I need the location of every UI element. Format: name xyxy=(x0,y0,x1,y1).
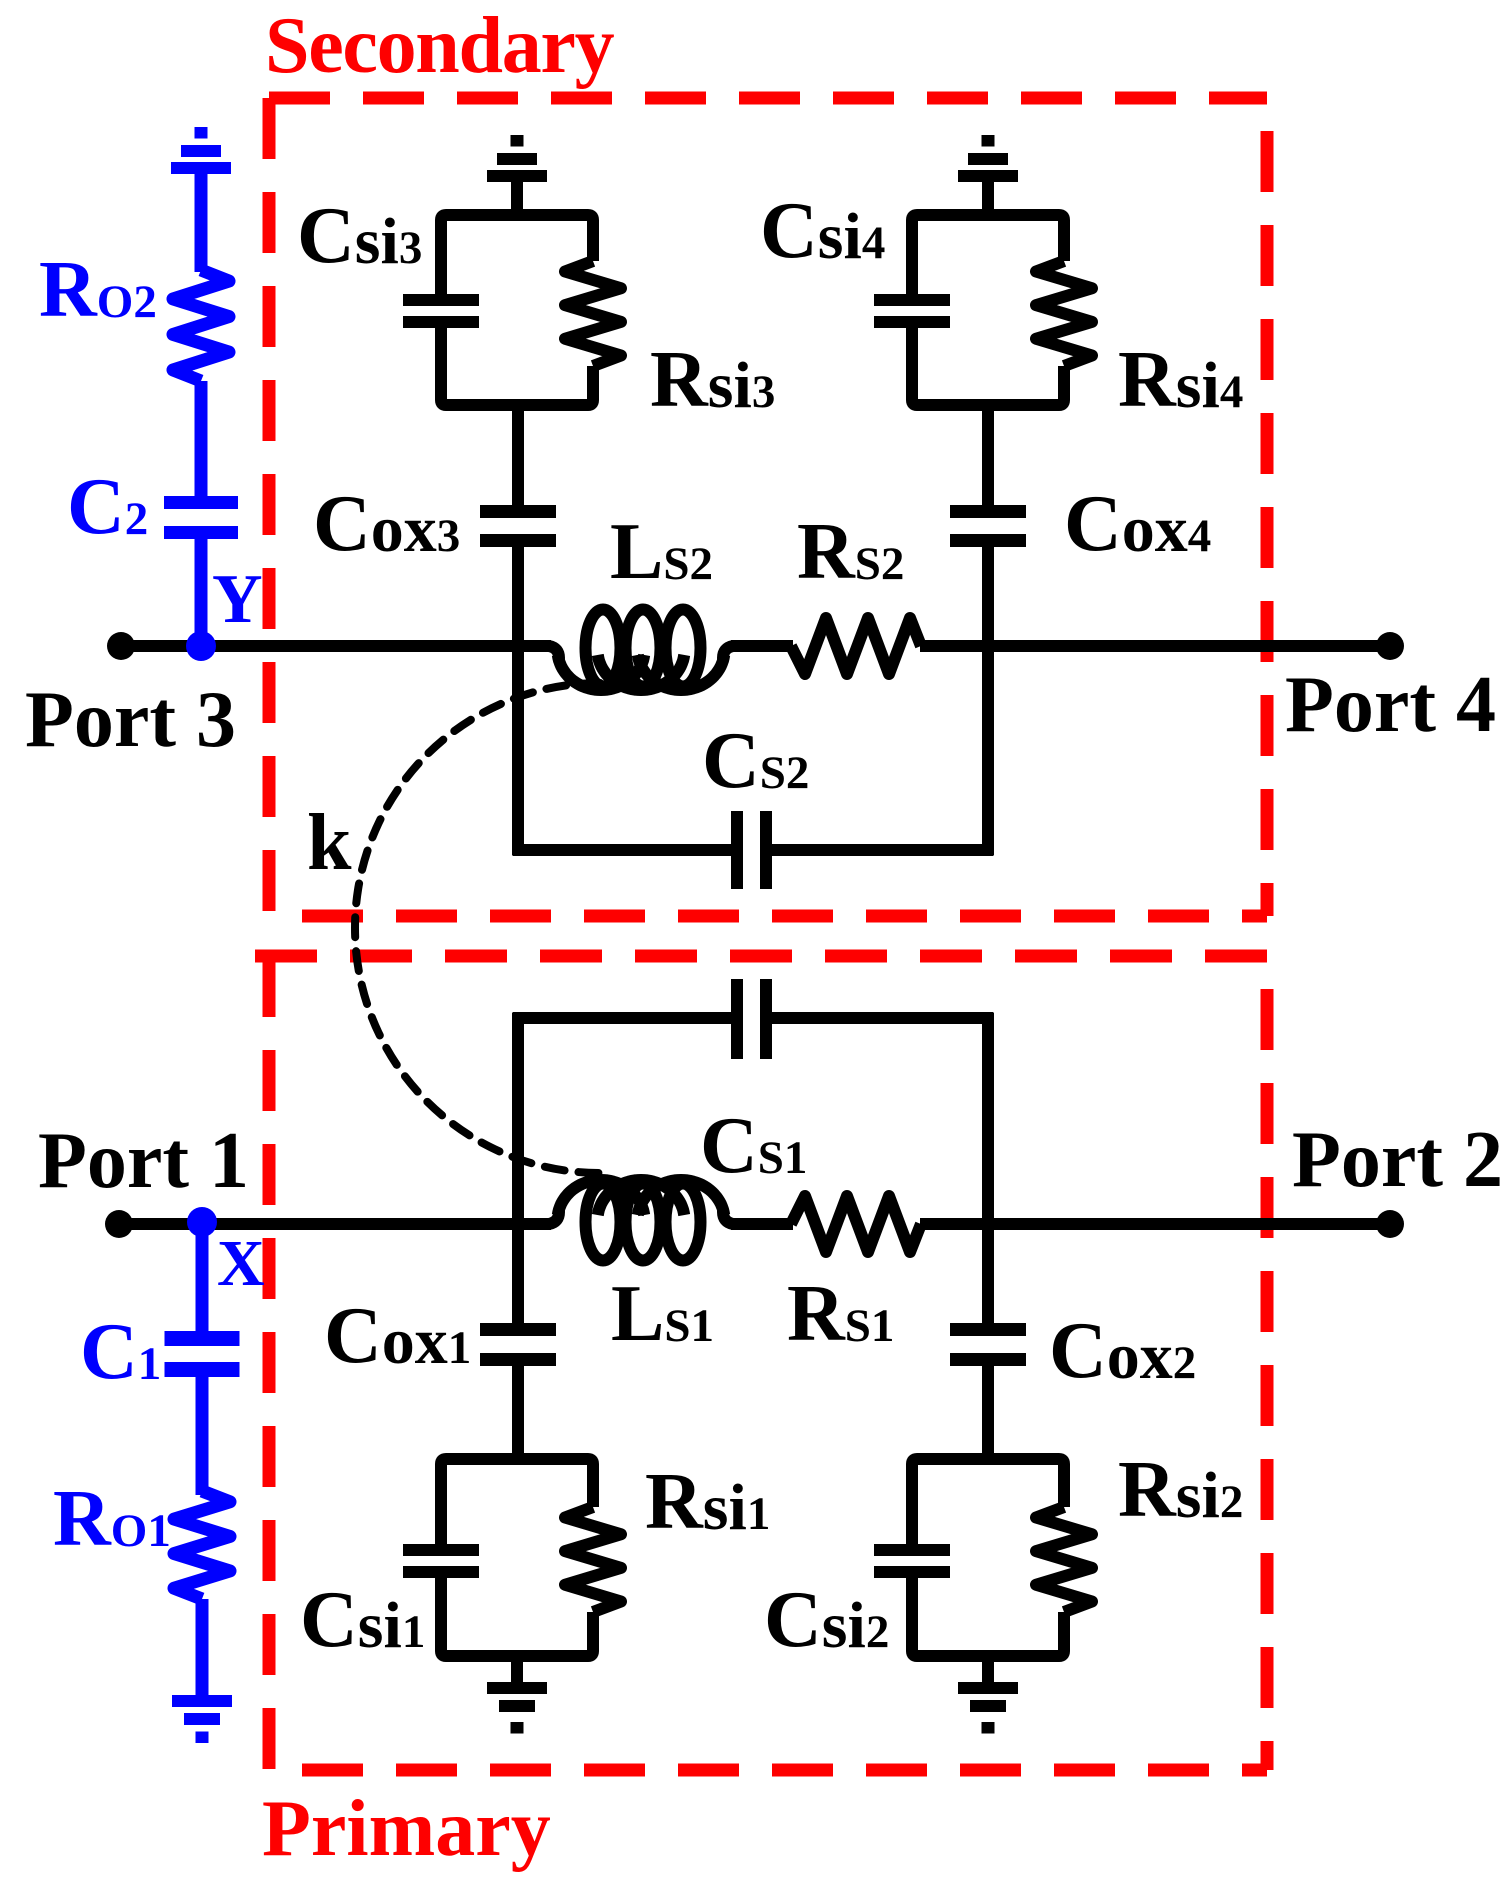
wire: bottom left of Cs2 loop xyxy=(513,844,738,856)
wire: node X to C1 xyxy=(196,1224,209,1335)
node Port 2 terminal dot xyxy=(1376,1210,1404,1238)
wire: box to top ground xyxy=(982,182,994,215)
svg-text:Port 3: Port 3 xyxy=(25,676,236,764)
resistor RO1 xyxy=(174,1491,230,1599)
wire: Rs2 to Port 4 xyxy=(920,640,1390,652)
wire: C1 to RO1 xyxy=(196,1377,209,1495)
resistor Rs2 xyxy=(791,618,921,674)
ground (Csi3/Rsi3) xyxy=(511,135,524,147)
capacitor Csi1 xyxy=(403,1544,479,1556)
ground (Csi1/Rsi1) xyxy=(487,1682,547,1694)
wire: top left of Cs1 loop xyxy=(513,1012,738,1024)
inductor Ls2 xyxy=(558,655,644,690)
wire: line to Cox4 xyxy=(982,540,994,646)
Primary block dashed box xyxy=(255,950,1267,963)
parallel RC Csi1/Rsi1 box xyxy=(441,1459,593,1544)
capacitor Cox1 xyxy=(480,1323,556,1336)
ground (RO2 top) xyxy=(195,127,208,139)
wire: box to bottom ground xyxy=(982,1656,994,1684)
capacitor Cs2 xyxy=(731,811,743,889)
resistor Rsi1 xyxy=(565,1507,621,1612)
svg-text:Y: Y xyxy=(212,561,263,638)
svg-text:k: k xyxy=(307,799,352,887)
wire: Cox4 to Csi4/Rsi4 box xyxy=(982,400,994,505)
node Port 4 terminal dot xyxy=(1376,632,1404,660)
capacitor C1 xyxy=(165,1331,240,1346)
node Port 3 terminal dot xyxy=(107,632,135,660)
inductor Ls1 xyxy=(558,1180,644,1215)
wire: bottom right of Cs2 loop xyxy=(766,844,994,856)
svg-text:Secondary: Secondary xyxy=(265,2,615,90)
svg-text:Port 1: Port 1 xyxy=(38,1117,249,1205)
svg-text:Primary: Primary xyxy=(262,1785,551,1873)
wire: box to top ground xyxy=(511,182,523,215)
capacitor Csi2 xyxy=(874,1544,950,1556)
capacitor Cs1 xyxy=(731,979,743,1059)
wire: Ls2 coil to Rs2 xyxy=(731,640,793,652)
parallel RC Csi2/Rsi2 box xyxy=(912,1459,1064,1544)
wire: RO1 to ground xyxy=(196,1599,209,1700)
arrowhead top (at Ls2) xyxy=(605,672,632,692)
parallel RC Csi4/Rsi4 box xyxy=(912,215,1064,294)
capacitor Csi4 xyxy=(874,294,950,306)
arrowhead bottom (at Ls1) xyxy=(605,1178,632,1198)
wire: box to bottom ground xyxy=(511,1656,523,1684)
capacitor Cox4 xyxy=(950,505,1026,518)
node Port 1 terminal dot xyxy=(105,1210,133,1238)
svg-text:Port 4: Port 4 xyxy=(1285,661,1496,749)
wire: Cox2 to Csi2/Rsi2 box xyxy=(982,1366,994,1464)
wire: line to Cox2 xyxy=(982,1224,994,1330)
wire: left leg of Cs2 loop xyxy=(512,646,524,855)
capacitor Cox3 xyxy=(480,505,556,518)
capacitor C2 xyxy=(164,496,238,509)
ground (RO1 bottom) xyxy=(172,1695,232,1707)
wire: Rs1 to Port 2 xyxy=(920,1218,1390,1230)
resistor RO2 xyxy=(173,270,229,381)
wire: right leg of Cs1 loop xyxy=(982,1013,994,1224)
svg-text:X: X xyxy=(217,1227,265,1300)
wire: Port1 to Ls1 coil xyxy=(119,1218,551,1230)
wire: Ls1 coil to Rs1 xyxy=(731,1218,793,1230)
wire: RO2 to C2 xyxy=(195,381,208,500)
resistor Rsi4 xyxy=(1036,261,1092,366)
node Y dot xyxy=(186,631,216,661)
wire: Port3 to Ls2 coil xyxy=(121,640,551,652)
resistor Rsi3 xyxy=(565,261,621,366)
resistor Rs1 xyxy=(791,1196,921,1252)
wire: line to Cox1 xyxy=(512,1224,524,1330)
capacitor Csi3 xyxy=(403,294,479,306)
Secondary block dashed box xyxy=(269,92,1267,105)
wire: line to Cox3 xyxy=(512,540,524,646)
wire: left leg of Cs1 loop xyxy=(512,1013,524,1224)
wire: C2 to node Y xyxy=(195,539,208,646)
svg-text:Port 2: Port 2 xyxy=(1292,1116,1503,1204)
coupling arc k (dashed) xyxy=(355,683,600,1173)
wire: right leg of Cs2 loop xyxy=(982,646,994,855)
wire: ground to RO2 xyxy=(195,173,208,272)
resistor Rsi2 xyxy=(1036,1507,1092,1612)
wire: Cox1 to Csi1/Rsi1 box xyxy=(512,1366,524,1464)
parallel RC Csi3/Rsi3 box xyxy=(441,215,593,294)
ground (Csi4/Rsi4) xyxy=(982,135,995,147)
wire: top right of Cs1 loop xyxy=(766,1012,994,1024)
wire: Cox3 to Csi3/Rsi3 box xyxy=(512,400,524,505)
ground (Csi2/Rsi2) xyxy=(958,1682,1018,1694)
node X dot xyxy=(187,1207,217,1237)
capacitor Cox2 xyxy=(950,1323,1026,1336)
